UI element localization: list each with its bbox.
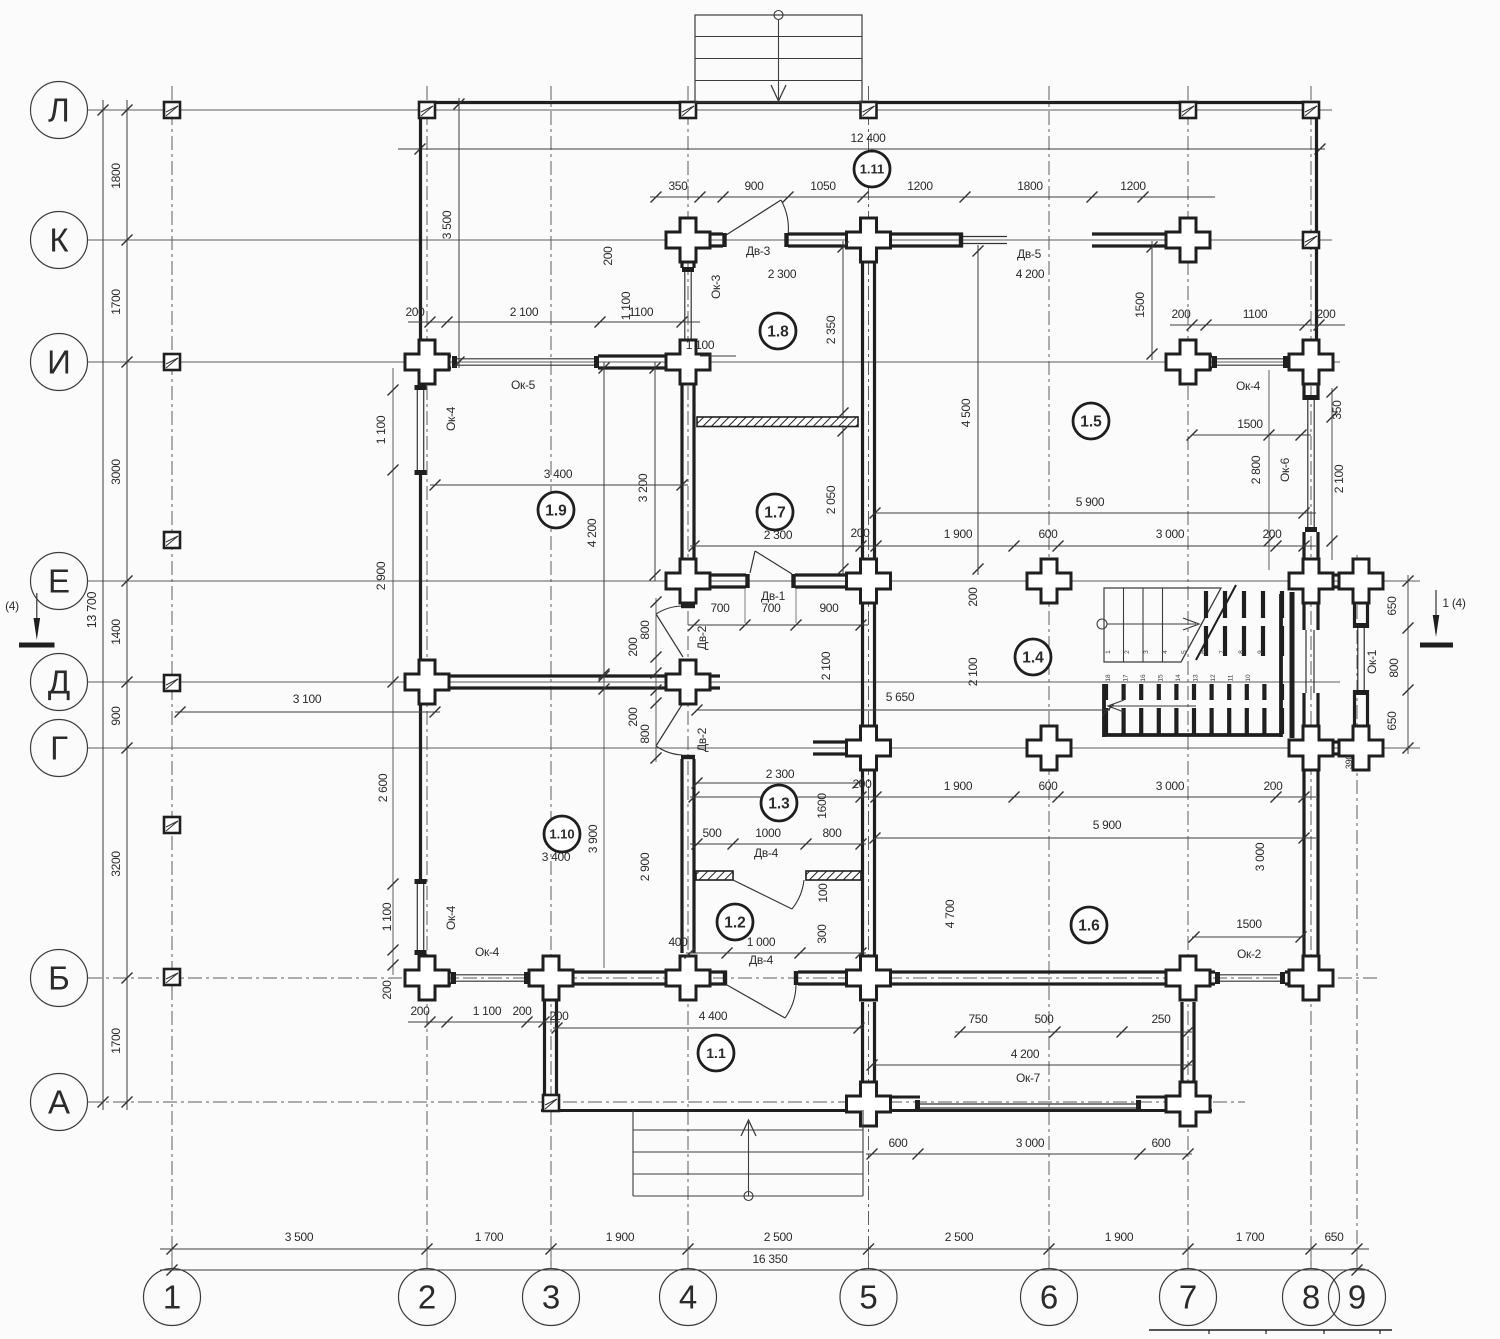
hatched partition between rooms 1.8 and 1.7 (697, 417, 858, 427)
dim 1100 window I-4 (700, 355, 736, 357)
post column at (1311,240) (1303, 232, 1319, 248)
svg-text:1: 1 (1105, 650, 1112, 654)
svg-text:2 500: 2 500 (764, 1230, 793, 1244)
wall on axis A: lower face / porch edge (541, 1109, 1212, 1112)
axis circle 7 (1160, 1269, 1217, 1326)
svg-text:13 700: 13 700 (85, 591, 99, 628)
svg-text:4 700: 4 700 (943, 899, 957, 928)
svg-text:650: 650 (1385, 596, 1399, 616)
dim 2350 room18 (842, 241, 844, 419)
svg-text:2 100: 2 100 (1332, 464, 1346, 493)
svg-text:200: 200 (626, 707, 640, 727)
post column at (1188,110) (1180, 102, 1196, 118)
wall on axis B: jamb piece 400 (694, 970, 727, 973)
top entrance stairs (695, 15, 862, 102)
svg-text:1.8: 1.8 (767, 324, 789, 341)
door Dv-1 double leaf (750, 551, 755, 573)
partition dv-4 dims (690, 843, 866, 845)
cross column K5 (847, 218, 891, 262)
axis line 4 (687, 86, 689, 1266)
svg-text:1 900: 1 900 (944, 527, 973, 541)
axis line 1 (171, 86, 173, 1266)
cross column K4 (666, 218, 710, 262)
svg-text:900: 900 (819, 601, 839, 615)
room13 dims (694, 782, 861, 784)
wall on axis 4: door to B (680, 759, 683, 953)
svg-text:200: 200 (1262, 527, 1282, 541)
svg-text:3: 3 (1143, 650, 1150, 654)
cross column G6 (1027, 726, 1071, 770)
svg-text:8: 8 (1238, 650, 1245, 654)
axis line K (88, 239, 1332, 241)
dim 2050 room17 (842, 425, 844, 575)
wall on axis B: door to cross5 (798, 970, 891, 973)
svg-text:200: 200 (966, 587, 980, 607)
post column at (172,977) (164, 969, 180, 985)
svg-text:2 900: 2 900 (638, 852, 652, 881)
axis circle Г (31, 720, 88, 777)
axis line A (88, 1101, 1245, 1103)
svg-text:11: 11 (1228, 674, 1235, 681)
dim 4400 room11 (553, 1027, 864, 1029)
axis circle 3 (523, 1269, 580, 1326)
axis circle 5 (840, 1269, 897, 1326)
svg-text:2 350: 2 350 (824, 315, 838, 344)
svg-text:14: 14 (1175, 674, 1182, 682)
cross column I8 (1289, 340, 1333, 384)
svg-text:3 900: 3 900 (586, 824, 600, 853)
dim 5900 room16 (875, 837, 1316, 839)
wall on axis E from cross4 to door (666, 573, 746, 576)
post column at (172,825) (164, 817, 180, 833)
svg-text:Дв-3: Дв-3 (746, 244, 771, 258)
bottom porch stairs (633, 1129, 863, 1131)
svg-text:К: К (49, 222, 69, 259)
svg-text:600: 600 (1038, 779, 1058, 793)
svg-text:Ок-3: Ок-3 (709, 274, 723, 299)
left segment dims (126, 100, 128, 1110)
staircase lower walking arrow (1108, 705, 1196, 707)
axis line D (88, 681, 1340, 683)
door Dv-5 thin lines (963, 236, 1007, 238)
svg-text:9: 9 (1348, 1279, 1366, 1316)
ok7 dims (872, 1064, 1192, 1066)
svg-text:16: 16 (1140, 674, 1147, 682)
top dim 12400 (398, 148, 1325, 150)
svg-text:1 100: 1 100 (619, 291, 633, 320)
door Dv-4 partition leaf (733, 880, 792, 909)
axis circle 8 (1283, 1269, 1340, 1326)
post column at (172,362) (164, 354, 180, 370)
dim 3500 vertical left of building (458, 98, 460, 368)
wall on axis 3 (porch left) (543, 996, 546, 1110)
axis circle Е (31, 553, 88, 610)
svg-text:1 100: 1 100 (686, 338, 715, 352)
svg-text:1.10: 1.10 (549, 827, 574, 842)
svg-text:3 200: 3 200 (636, 473, 650, 502)
svg-text:400: 400 (668, 935, 688, 949)
left overall dim 13700 (102, 100, 104, 1110)
svg-text:2 300: 2 300 (768, 267, 797, 281)
svg-text:8: 8 (1302, 1279, 1320, 1316)
window Ok-3 in axis4 wall (684, 272, 686, 344)
svg-text:700: 700 (761, 601, 781, 615)
svg-text:3 000: 3 000 (1016, 1136, 1045, 1150)
svg-text:750: 750 (968, 1012, 988, 1026)
room circle 1.7 (757, 494, 793, 530)
cross column E6 (1027, 559, 1071, 603)
svg-text:1800: 1800 (109, 163, 123, 189)
axis circle Д (31, 654, 88, 711)
I chain left (408, 321, 700, 323)
axis line 9 (1356, 555, 1358, 1266)
axis line 7 (1187, 86, 1189, 1266)
svg-text:390: 390 (1344, 755, 1354, 769)
svg-text:200: 200 (380, 980, 394, 1000)
svg-text:1.6: 1.6 (1078, 918, 1100, 935)
wall on axis A: upper face (847, 1096, 920, 1099)
svg-text:4 200: 4 200 (1011, 1047, 1040, 1061)
post column at (172,110) (164, 102, 180, 118)
svg-text:Дв-2: Дв-2 (695, 625, 709, 650)
axis circle Б (31, 950, 88, 1007)
svg-text:200: 200 (549, 1009, 569, 1023)
svg-text:600: 600 (1038, 527, 1058, 541)
door Dv-2 lower leaf and arc (656, 703, 683, 746)
wall on axis 4: I cross to E cross (680, 348, 683, 559)
window Ok-4 upper in left wall (416, 390, 418, 470)
svg-text:7: 7 (1179, 1279, 1197, 1316)
section mark right (1435, 590, 1437, 633)
svg-text:Б: Б (48, 960, 70, 997)
svg-text:Ок-4: Ок-4 (444, 406, 458, 431)
svg-text:Г: Г (50, 730, 68, 767)
I chain right (1170, 324, 1345, 326)
svg-text:12: 12 (1210, 674, 1217, 682)
door Dv-2 upper leaf and arc (656, 614, 683, 657)
svg-text:200: 200 (405, 305, 425, 319)
left inner vertical ext line with dims (392, 368, 394, 975)
svg-text:200: 200 (1171, 307, 1191, 321)
staircase cut flight (thick dashes upper) (1204, 591, 1208, 618)
svg-text:1 100: 1 100 (473, 1004, 502, 1018)
svg-text:3 500: 3 500 (440, 210, 454, 239)
window Ok-2 in B wall (1220, 974, 1280, 976)
svg-text:2 800: 2 800 (1249, 455, 1263, 484)
svg-text:Ок-4: Ок-4 (475, 945, 500, 959)
svg-text:4: 4 (679, 1279, 697, 1316)
svg-text:1 700: 1 700 (1236, 1230, 1265, 1244)
right exterior wall (axis 8 top) (1315, 101, 1318, 341)
wall on axis 7 (B to A) (1180, 1002, 1183, 1093)
door Dv-3 leaf (723, 200, 781, 237)
svg-text:1050: 1050 (810, 179, 836, 193)
cross column D4 (666, 660, 710, 704)
svg-text:Ок-1: Ок-1 (1365, 649, 1379, 674)
svg-text:16 350: 16 350 (753, 1252, 789, 1266)
cross column B2 (405, 956, 449, 1000)
axis circle 2 (399, 1269, 456, 1326)
svg-text:3 000: 3 000 (1156, 779, 1185, 793)
cross column I7 (1166, 340, 1210, 384)
svg-text:500: 500 (702, 826, 722, 840)
wall on axis 5 (861, 262, 864, 559)
bottom extension lines (171, 1249, 173, 1268)
svg-text:2 600: 2 600 (376, 773, 390, 802)
svg-text:1 100: 1 100 (374, 415, 388, 444)
svg-text:5 650: 5 650 (886, 690, 915, 704)
axis circle 9 (1329, 1269, 1386, 1326)
bottom overall dim 16350 (160, 1269, 1369, 1271)
post column at (688,110) (680, 102, 696, 118)
room12 dims (686, 952, 866, 954)
axis circle К (31, 212, 88, 269)
svg-text:650: 650 (1324, 1230, 1344, 1244)
svg-text:1600: 1600 (815, 793, 829, 819)
dim 4500 room15 (977, 245, 979, 575)
svg-text:800: 800 (1387, 658, 1401, 678)
svg-text:7: 7 (1219, 650, 1226, 654)
wall on axis B: cross7 arms (1166, 970, 1215, 973)
svg-text:1.11: 1.11 (860, 162, 885, 177)
svg-text:13: 13 (1193, 674, 1200, 682)
room circle 1.9 (538, 492, 574, 528)
svg-text:2 100: 2 100 (510, 305, 539, 319)
svg-text:1 900: 1 900 (944, 779, 973, 793)
svg-text:18: 18 (1105, 674, 1112, 682)
axis circle 1 (144, 1269, 201, 1326)
svg-text:1.4: 1.4 (1022, 650, 1044, 667)
wall stub on axis G at cross5 (813, 740, 891, 743)
post column at (427,110) (419, 102, 435, 118)
bay bottom wall on axis G (1289, 740, 1381, 743)
window Ok-4 lower in left wall (416, 884, 418, 950)
svg-text:1200: 1200 (907, 179, 933, 193)
axis circle 6 (1021, 1269, 1078, 1326)
svg-text:2: 2 (418, 1279, 436, 1316)
svg-text:6: 6 (1200, 650, 1207, 654)
svg-text:1700: 1700 (109, 289, 123, 315)
extension line x604 (603, 680, 605, 968)
svg-text:3 400: 3 400 (544, 467, 573, 481)
cross column B7 (1166, 956, 1210, 1000)
svg-text:200: 200 (626, 637, 640, 657)
svg-text:3 500: 3 500 (285, 1230, 314, 1244)
svg-text:Ок-4: Ок-4 (444, 905, 458, 930)
svg-text:1000: 1000 (755, 826, 781, 840)
axis line E (88, 580, 1420, 582)
Dv-2 extension line with ticks (655, 598, 657, 762)
extension line right of Ok-6 (1268, 370, 1270, 570)
svg-text:2: 2 (1124, 650, 1131, 654)
wall on axis 4: small piece below K cross (680, 262, 683, 268)
cross column E9 (1339, 559, 1383, 603)
axis line 3 (550, 86, 552, 1266)
cross column G5 (847, 726, 891, 770)
room circle 1.10 (544, 816, 580, 852)
cross column I4 (666, 340, 710, 384)
svg-text:2 100: 2 100 (819, 651, 833, 680)
cross column A7 (1166, 1082, 1210, 1126)
svg-text:1 900: 1 900 (1105, 1230, 1134, 1244)
hatched partition rooms 1.3/1.2 left piece (696, 871, 733, 880)
svg-text:200: 200 (1263, 779, 1283, 793)
svg-text:2 500: 2 500 (945, 1230, 974, 1244)
svg-text:Ок-7: Ок-7 (1016, 1071, 1041, 1085)
svg-text:2 100: 2 100 (966, 657, 980, 686)
wall on axis D (406, 674, 720, 677)
svg-text:3200: 3200 (109, 851, 123, 877)
G chain (690, 796, 1316, 798)
svg-text:Ок-5: Ок-5 (511, 378, 536, 392)
svg-text:1500: 1500 (1133, 292, 1147, 318)
room circle 1.11 (854, 151, 890, 187)
svg-text:5 900: 5 900 (1076, 495, 1105, 509)
svg-text:100: 100 (816, 883, 830, 903)
svg-text:А: А (48, 1084, 70, 1121)
svg-text:200: 200 (410, 1004, 430, 1018)
room circle 1.1 (698, 1035, 734, 1071)
svg-text:6: 6 (1040, 1279, 1058, 1316)
svg-text:Ок-6: Ок-6 (1278, 457, 1292, 482)
svg-text:Дв-4: Дв-4 (754, 846, 779, 860)
svg-text:1 000: 1 000 (747, 935, 776, 949)
svg-text:300: 300 (815, 924, 829, 944)
svg-text:1: 1 (163, 1279, 181, 1316)
svg-text:900: 900 (109, 706, 123, 726)
section mark left (36, 593, 38, 636)
wall on axis I: left cross arm segment (405, 354, 451, 357)
bay dims 650/800/650 (1407, 575, 1409, 754)
cross column A5 (847, 1082, 891, 1126)
svg-text:17: 17 (1123, 674, 1130, 682)
cross column K7 (1166, 218, 1210, 262)
svg-text:2 300: 2 300 (766, 767, 795, 781)
dim 3200 (654, 362, 656, 581)
cross column B5 (847, 956, 891, 1000)
B chain left (408, 1021, 560, 1023)
axis line 5 (868, 86, 870, 1266)
E chain (690, 545, 1316, 547)
svg-text:1 700: 1 700 (475, 1230, 504, 1244)
post column at (551,1103) (543, 1095, 559, 1111)
wall on axis I right to cross8 (1288, 354, 1333, 357)
svg-text:2 900: 2 900 (374, 561, 388, 590)
wall on axis K left segment (665, 232, 723, 235)
window Ok-7 in A wall (920, 1103, 1136, 1105)
svg-text:1.3: 1.3 (768, 796, 790, 813)
svg-text:Дв-4: Дв-4 (749, 953, 774, 967)
svg-text:Дв-2: Дв-2 (695, 727, 709, 752)
axis line L (88, 109, 1332, 111)
hatched partition rooms 1.3/1.2 right piece (806, 871, 861, 880)
svg-text:4 200: 4 200 (1016, 267, 1045, 281)
axis line 8 (1310, 86, 1312, 1266)
wall on axis K right segment (1092, 232, 1210, 235)
wall on axis I right: cross7 to window (1166, 354, 1212, 357)
cross column E4 (666, 559, 710, 603)
wall on axis E door to cross5 (795, 573, 891, 576)
svg-text:1.2: 1.2 (724, 915, 746, 932)
svg-text:12 400: 12 400 (851, 131, 887, 145)
axis circle Л (31, 82, 88, 139)
svg-text:3: 3 (542, 1279, 560, 1316)
svg-text:1800: 1800 (1017, 179, 1043, 193)
svg-text:Е: Е (48, 563, 70, 600)
cross column B8 (1289, 956, 1333, 1000)
svg-text:5: 5 (859, 1279, 877, 1316)
room circle 1.3 (761, 785, 797, 821)
window Ok-1 in bay right wall (1357, 628, 1359, 690)
svg-text:4: 4 (1162, 650, 1169, 654)
bay right wall (axis 9) (1353, 598, 1356, 628)
cross column E5 (847, 559, 891, 603)
svg-text:Л: Л (48, 92, 70, 129)
dim 1500 K-I right (1151, 241, 1153, 360)
svg-text:200: 200 (850, 526, 870, 540)
svg-text:1100: 1100 (1243, 307, 1268, 321)
svg-text:Д: Д (48, 664, 70, 701)
svg-text:1200: 1200 (1120, 179, 1146, 193)
cross column B3 (529, 956, 573, 1000)
cross column G8 (1289, 726, 1333, 770)
dim 3400 room19 (430, 484, 688, 486)
svg-text:650: 650 (1385, 711, 1399, 731)
svg-text:(4): (4) (5, 599, 19, 613)
svg-text:3 100: 3 100 (293, 692, 322, 706)
svg-text:1 900: 1 900 (606, 1230, 635, 1244)
staircase upper flight (1104, 588, 1221, 662)
wall on axis K mid segment (788, 232, 963, 235)
dim 5900 room15 (875, 512, 1316, 514)
wall on axis 5 stub above G (861, 726, 864, 741)
svg-text:200: 200 (601, 246, 615, 266)
svg-text:1700: 1700 (109, 1028, 123, 1054)
axis line G (88, 747, 1420, 749)
cross column I2 (405, 340, 449, 384)
staircase lower flight (thick comb) (1104, 684, 1108, 700)
bay top wall on axis E (1290, 573, 1381, 576)
svg-text:3000: 3000 (109, 459, 123, 485)
door jamb caps (722, 233, 726, 247)
svg-text:600: 600 (888, 1136, 908, 1150)
svg-text:Дв-5: Дв-5 (1017, 247, 1042, 261)
axis circle 4 (660, 1269, 717, 1326)
axis line 6 (1048, 86, 1050, 1266)
left exterior wall (axis 2) (419, 101, 422, 390)
post column at (868,110) (861, 102, 877, 118)
svg-text:800: 800 (638, 724, 652, 744)
axis circle А (31, 1074, 88, 1131)
room circle 1.2 (717, 904, 753, 940)
wall on axis B: long right segment (891, 970, 1166, 973)
svg-text:15: 15 (1158, 674, 1165, 682)
svg-text:5: 5 (1181, 650, 1188, 654)
svg-text:800: 800 (822, 826, 842, 840)
svg-text:250: 250 (1151, 1012, 1171, 1026)
dim 3100 left (175, 711, 440, 713)
room circle 1.8 (760, 313, 796, 349)
cross column G9 (1339, 726, 1383, 770)
svg-text:5 900: 5 900 (1093, 818, 1122, 832)
room circle 1.5 (1073, 403, 1109, 439)
window Ok-6 in axis8 wall (1307, 400, 1309, 527)
svg-text:9: 9 (1257, 650, 1264, 654)
post column at (1311,110) (1303, 102, 1319, 118)
window Ok-5 (457, 358, 594, 360)
svg-text:900: 900 (744, 179, 764, 193)
staircase diagonal cut (1196, 585, 1236, 660)
